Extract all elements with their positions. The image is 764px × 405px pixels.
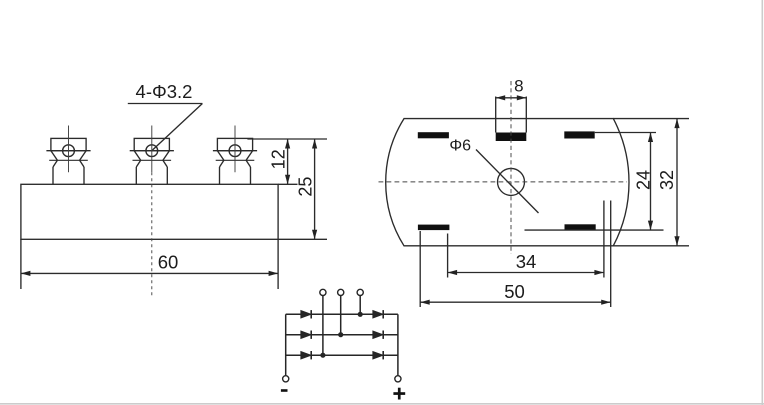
dimension 50 xyxy=(420,281,611,305)
terminal pad bottom-right (black) xyxy=(565,224,596,229)
svg-text:Φ6: Φ6 xyxy=(449,137,471,154)
label plus xyxy=(393,388,405,400)
terminal pad bottom-left (black) xyxy=(418,225,450,231)
page border bottom xyxy=(0,403,764,405)
diode D2 xyxy=(373,310,383,318)
wire positive bus xyxy=(397,314,399,375)
diode D5 xyxy=(301,351,311,359)
dimension 25 xyxy=(278,139,327,239)
svg-text:4-Φ3.2: 4-Φ3.2 xyxy=(136,81,193,102)
diode D4 xyxy=(373,331,383,339)
top view body outline xyxy=(386,119,629,246)
diode D3 xyxy=(301,331,311,339)
wire row 3 xyxy=(286,354,398,356)
terminal pad top-right (black) xyxy=(564,131,594,138)
centerline through terminal 2 xyxy=(151,172,153,298)
terminal post 1 (front view) xyxy=(46,126,90,185)
junction AC2/row2 xyxy=(338,332,343,337)
dimension 32 xyxy=(657,119,680,246)
svg-text:34: 34 xyxy=(516,251,537,272)
terminal post 2 (front view) xyxy=(130,126,174,185)
wire negative bus xyxy=(285,314,287,375)
bottom edge extension to 32 dimension xyxy=(613,245,689,247)
dimension 12 xyxy=(247,139,327,184)
terminal post 3 (front view) xyxy=(213,126,257,185)
svg-text:12: 12 xyxy=(269,149,289,169)
svg-text:8: 8 xyxy=(514,77,523,96)
mounting hole Φ6 xyxy=(498,168,525,195)
label minus xyxy=(281,389,288,392)
dimension 34 xyxy=(448,251,604,275)
DC output terminal - xyxy=(283,376,289,382)
wire row 1 xyxy=(286,313,398,315)
svg-text:24: 24 xyxy=(634,170,654,190)
wire AC2 stub xyxy=(340,296,342,335)
page border right xyxy=(761,0,763,405)
junction AC1/row3 xyxy=(320,353,325,358)
wire row 2 xyxy=(286,334,398,336)
diode D6 xyxy=(373,351,383,359)
dimension 60 xyxy=(21,239,278,289)
dimension 8 xyxy=(496,77,527,101)
wire AC1 stub xyxy=(322,296,324,355)
DC output terminal + xyxy=(395,376,401,382)
middle pad side lines / extension lines for 8 xyxy=(495,97,497,133)
junction AC3/row1 xyxy=(358,312,363,317)
AC input terminal 3 xyxy=(357,289,363,295)
AC input terminal 1 xyxy=(320,289,326,295)
front view body outline xyxy=(21,184,278,239)
diode D1 xyxy=(301,310,311,318)
extension lines for 34 and 50 xyxy=(419,231,421,307)
svg-text:25: 25 xyxy=(296,177,316,197)
dimension 24 xyxy=(525,133,664,231)
svg-text:32: 32 xyxy=(657,170,677,190)
top edge extension to 32 dimension xyxy=(613,118,689,120)
horizontal centerline (dashed) xyxy=(379,181,628,183)
wire AC3 stub xyxy=(359,296,361,315)
terminal pad top-left (black) xyxy=(418,132,449,138)
svg-text:60: 60 xyxy=(158,252,179,273)
vertical centerline (dashed) xyxy=(510,81,512,254)
svg-text:50: 50 xyxy=(504,281,525,302)
AC input terminal 2 xyxy=(338,289,344,295)
terminal pad top-middle (black) xyxy=(496,133,527,142)
